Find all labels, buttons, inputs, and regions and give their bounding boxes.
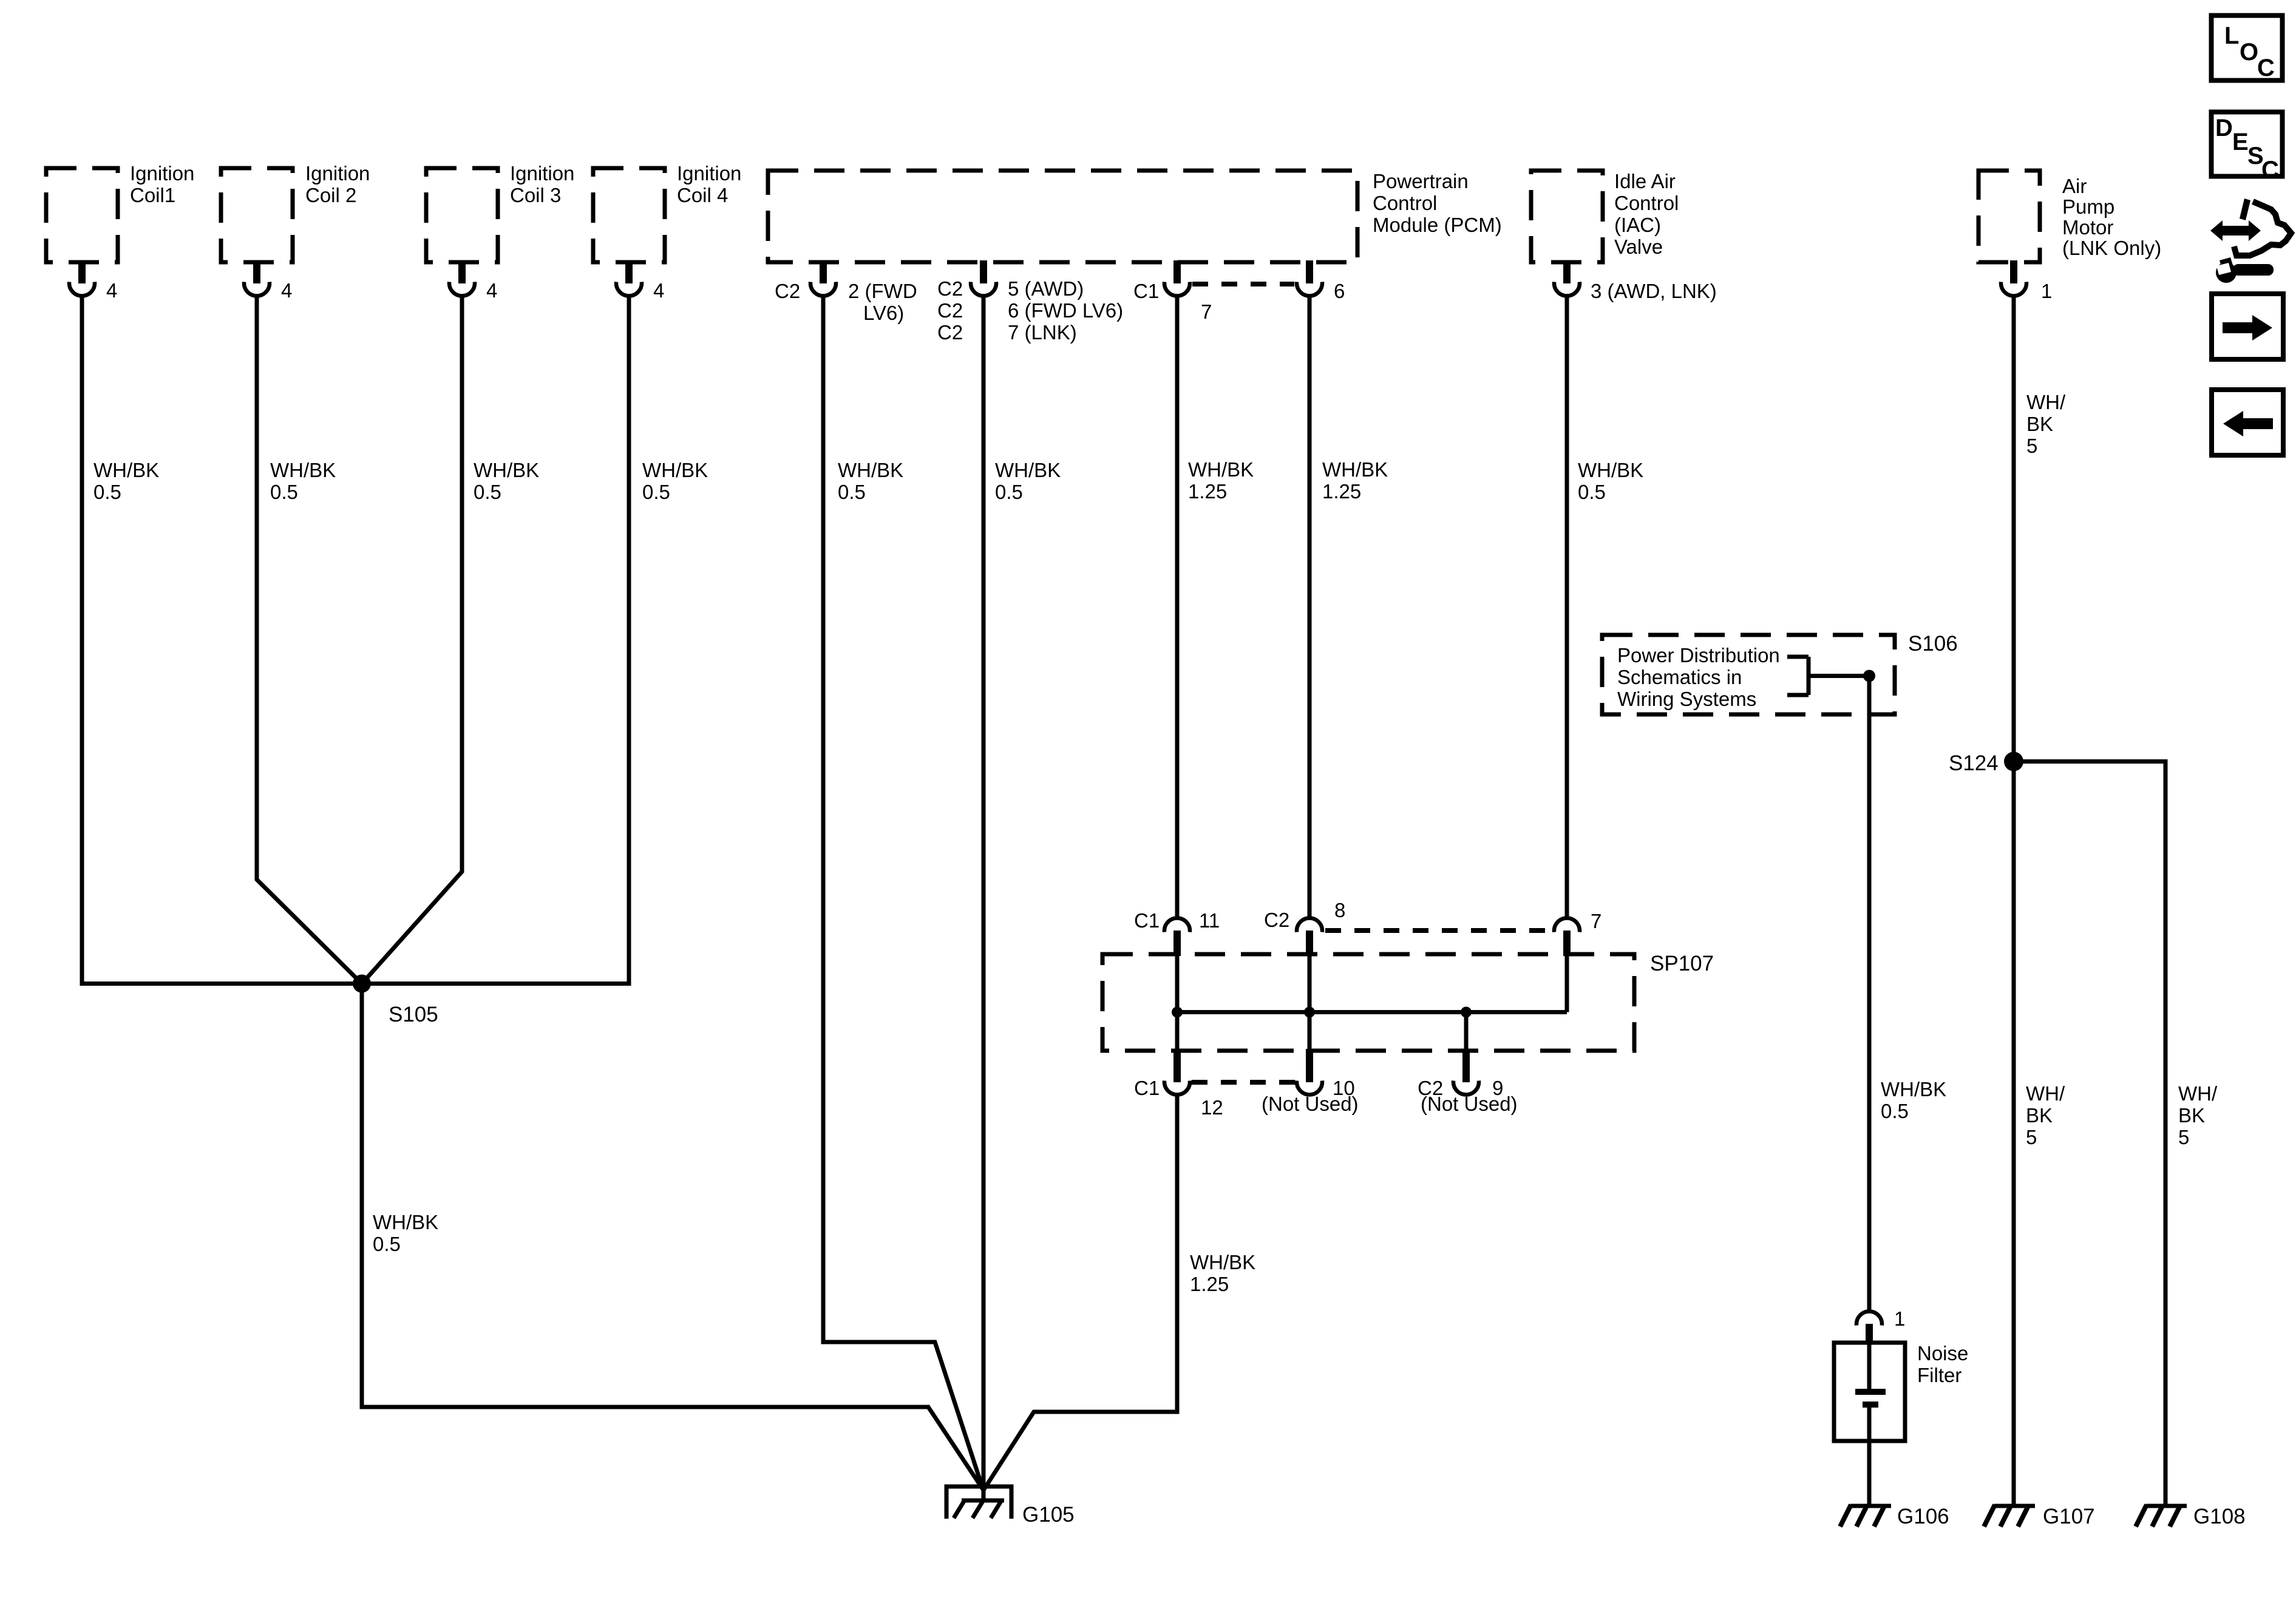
svg-text:Coil 2: Coil 2: [305, 184, 356, 206]
dashed tie line SP107 pin 12 to pin 10: [1192, 1080, 1296, 1085]
label S124: [1949, 751, 1999, 775]
svg-text:SP107: SP107: [1650, 952, 1714, 975]
wire label WH/BK 0.5 (noise filter wire): [1881, 1078, 1946, 1122]
svg-text:5: 5: [2178, 1126, 2189, 1148]
svg-text:C2: C2: [937, 321, 963, 344]
splice pack SP107 dashed box: [1102, 954, 1634, 1051]
label G107: [2043, 1505, 2095, 1528]
label (Not Used) pin 10: [1262, 1093, 1359, 1115]
connector label C2 (pin 8): [1264, 909, 1289, 931]
connector labels C2 C2 C2: [937, 277, 963, 344]
svg-text:BK: BK: [2178, 1104, 2205, 1127]
svg-text:Air: Air: [2062, 175, 2087, 197]
svg-text:WH/BK: WH/BK: [1881, 1078, 1946, 1100]
LOC icon box: [2212, 16, 2283, 82]
svg-text:1.25: 1.25: [1190, 1273, 1229, 1295]
svg-text:7: 7: [1201, 300, 1212, 323]
wire S106 to noise filter: [1867, 676, 1872, 1312]
ground G105 hatches: [954, 1501, 1001, 1518]
svg-text:Ignition: Ignition: [130, 162, 194, 185]
svg-text:Noise: Noise: [1917, 1342, 1968, 1364]
pin number 12: [1201, 1096, 1223, 1119]
svg-text:Ignition: Ignition: [305, 162, 370, 185]
svg-text:C2: C2: [937, 299, 963, 322]
svg-text:C2: C2: [1264, 909, 1289, 931]
svg-text:C: C: [2261, 157, 2279, 183]
svg-text:12: 12: [1201, 1096, 1223, 1119]
pin number 9: [1492, 1077, 1503, 1099]
label (Not Used) pin 9: [1421, 1093, 1518, 1115]
SP107 internal vertical pin 7: [1565, 954, 1569, 1012]
PCM pin C2-2 connector cup: [810, 282, 836, 296]
SP107 pin C1-11 stub: [1173, 931, 1181, 956]
svg-text:0.5: 0.5: [1881, 1100, 1909, 1122]
wire label WH/BK 0.5 (coil1): [93, 459, 159, 503]
svg-text:0.5: 0.5: [642, 481, 670, 503]
SP107 internal bus: [1177, 1010, 1567, 1014]
ground G106 symbol: [1840, 1505, 1891, 1527]
IAC valve dashed box: [1531, 171, 1603, 262]
svg-text:WH/: WH/: [2026, 391, 2066, 413]
svg-text:0.5: 0.5: [373, 1233, 401, 1255]
SP107 pin 10 stub: [1306, 1049, 1313, 1082]
view/tools icon outline shape: [2234, 198, 2291, 256]
wire S124 to G108: [2014, 762, 2165, 1507]
svg-text:C2: C2: [775, 280, 800, 302]
svg-text:Filter: Filter: [1917, 1364, 1961, 1386]
connector label C1: [1133, 280, 1159, 302]
svg-text:C1: C1: [1134, 1077, 1160, 1099]
wire label WH/BK 0.5 (coil4): [642, 459, 708, 503]
ignition coil 1 dashed box: [46, 168, 118, 262]
view/tools icon double arrow: [2210, 220, 2261, 241]
DESC icon box: [2212, 112, 2283, 184]
S106 bracket: [1787, 657, 1869, 695]
noise filter box: [1834, 1343, 1905, 1441]
svg-text:G107: G107: [2043, 1505, 2095, 1528]
wire S105 to G105: [362, 984, 983, 1491]
svg-text:Ignition: Ignition: [510, 162, 574, 185]
svg-text:3 (AWD, LNK): 3 (AWD, LNK): [1591, 280, 1717, 302]
pin number 1 (air pump): [2041, 280, 2052, 302]
svg-text:Pump: Pump: [2062, 195, 2114, 218]
ground G105 bracket: [946, 1486, 1011, 1519]
svg-text:5: 5: [2026, 1126, 2037, 1148]
pin label 3 (AWD, LNK): [1591, 280, 1717, 302]
wire label WH/BK 1.25 (C1-7 wire): [1188, 458, 1254, 503]
svg-text:11: 11: [1199, 909, 1220, 932]
svg-text:WH/BK: WH/BK: [1322, 458, 1388, 481]
svg-text:Coil 4: Coil 4: [677, 184, 728, 206]
svg-text:D: D: [2215, 115, 2233, 141]
PCM pin C2-2 stub: [820, 260, 827, 283]
ignition coil 4 pin 4 connector cup: [616, 282, 642, 296]
svg-text:WH/BK: WH/BK: [93, 459, 159, 481]
svg-text:2 (FWD: 2 (FWD: [848, 280, 917, 302]
SP107 pin 7 connector cup: [1554, 918, 1580, 932]
wire coil3 to S105: [362, 296, 462, 984]
noise filter pin stub: [1866, 1324, 1873, 1344]
dashed tie line SP107 pin 8 to pin 7: [1325, 928, 1552, 933]
svg-text:S105: S105: [389, 1003, 438, 1026]
air pump pin stub: [2010, 260, 2017, 283]
label SP107: [1650, 952, 1714, 975]
svg-text:Motor: Motor: [2062, 216, 2113, 239]
wire label WH/BK 0.5 (S105 wire): [373, 1211, 438, 1255]
PCM pin C2-5/6/7 connector cup: [971, 282, 996, 296]
svg-text:Powertrain: Powertrain: [1373, 170, 1469, 192]
air pump motor dashed box: [1978, 171, 2040, 262]
svg-text:Idle Air: Idle Air: [1614, 170, 1676, 192]
SP107 pin 7 stub: [1563, 931, 1571, 956]
wire label WH/BK 0.5 (coil2): [270, 459, 336, 503]
splice S106 dashed box: [1602, 635, 1895, 714]
ground G107 symbol: [1984, 1505, 2035, 1527]
SP107 pin C2-9 connector cup: [1453, 1080, 1479, 1094]
svg-text:WH/: WH/: [2026, 1082, 2065, 1105]
capacitor lower lead: [1867, 1408, 1872, 1443]
svg-text:7: 7: [1591, 910, 1601, 932]
svg-text:0.5: 0.5: [995, 481, 1023, 503]
pin number 8: [1334, 899, 1345, 921]
ignition coil 2 dashed box: [221, 168, 293, 262]
PCM pin C1-7 stub: [1173, 260, 1181, 283]
PCM pin C2-5/6/7 stub: [980, 260, 987, 283]
svg-text:WH/: WH/: [2178, 1082, 2218, 1105]
svg-text:Schematics in: Schematics in: [1617, 666, 1742, 688]
wire label WH/BK 0.5 (coil3): [474, 459, 539, 503]
pin number 4 (coil 4): [653, 279, 664, 302]
wire label WH/BK 0.5 (IAC wire): [1578, 459, 1643, 503]
svg-text:Wiring Systems: Wiring Systems: [1617, 688, 1756, 710]
IAC pin stub: [1563, 260, 1571, 283]
svg-text:BK: BK: [2026, 1104, 2053, 1127]
svg-text:Coil 3: Coil 3: [510, 184, 561, 206]
capacitor bottom plate: [1863, 1402, 1878, 1408]
pin number 7 (PCM C1): [1201, 300, 1212, 323]
pin labels 5 (AWD) 6 (FWD LV6) 7 (LNK): [1008, 277, 1123, 344]
wire SP107 pin 12 to G105: [983, 1093, 1177, 1490]
svg-text:C1: C1: [1133, 280, 1159, 302]
wire PCM C2-2 to G105: [823, 296, 983, 1491]
svg-text:4: 4: [653, 279, 664, 302]
SP107 pin C2-8 stub: [1306, 931, 1313, 956]
SP107 pin C2-9 stub: [1462, 1049, 1470, 1082]
svg-text:E: E: [2232, 129, 2249, 155]
pin number 6: [1334, 280, 1345, 302]
pin number 10: [1333, 1077, 1355, 1099]
ground G108 symbol: [2136, 1505, 2187, 1527]
ignition coil 3 dashed box: [426, 168, 498, 262]
SP107 pin 10 connector cup: [1297, 1080, 1322, 1094]
svg-text:5 (AWD): 5 (AWD): [1008, 277, 1084, 300]
air pump motor label: [2062, 175, 2161, 259]
ignition coil 4 label: [677, 162, 741, 206]
forward arrow icon box: [2212, 294, 2283, 359]
svg-text:7 (LNK): 7 (LNK): [1008, 321, 1077, 344]
wire PCM C2-5 to G105: [982, 296, 986, 1500]
wire label WH/BK 0.5 (C2-5 wire): [995, 459, 1061, 503]
ignition coil 2 label: [305, 162, 370, 206]
wire PCM pin 6 to SP107 pin 8: [1308, 296, 1312, 918]
SP107 internal vertical pin 11 to 12: [1175, 954, 1180, 1051]
svg-text:Control: Control: [1373, 192, 1437, 214]
svg-text:G105: G105: [1022, 1503, 1075, 1527]
connector label C1 (pin 12): [1134, 1077, 1160, 1099]
svg-text:LV6): LV6): [863, 302, 904, 324]
capacitor C (noise filter) lead: [1867, 1343, 1872, 1389]
svg-text:BK: BK: [2026, 413, 2053, 435]
pin number 11: [1199, 909, 1220, 932]
PCM U1 dashed box: [768, 171, 1357, 262]
svg-text:C1: C1: [1134, 909, 1160, 932]
svg-text:5: 5: [2026, 435, 2037, 457]
ignition coil 3 pin stub: [458, 260, 466, 283]
SP107 internal vertical to pin 9: [1464, 1012, 1469, 1051]
svg-text:4: 4: [106, 279, 117, 302]
ignition coil 3 label: [510, 162, 574, 206]
SP107 pin C1-12 stub: [1173, 1049, 1181, 1082]
wire coil2 to S105: [257, 296, 362, 984]
svg-text:(Not Used): (Not Used): [1421, 1093, 1518, 1115]
air pump pin 1 connector cup: [2001, 282, 2026, 296]
pin number 4 (coil 3): [486, 279, 497, 302]
noise filter label: [1917, 1342, 1968, 1386]
SP107 pin C1-11 connector cup: [1164, 918, 1190, 932]
label G106: [1897, 1505, 1949, 1528]
svg-text:C2: C2: [937, 277, 963, 300]
back arrow icon box: [2212, 390, 2283, 455]
PCM label: [1373, 170, 1502, 236]
ignition coil 1 label: [130, 162, 194, 206]
label S105: [389, 1003, 438, 1026]
svg-text:4: 4: [486, 279, 497, 302]
ignition coil 4 dashed box: [593, 168, 665, 262]
svg-text:C: C: [2257, 55, 2275, 81]
svg-text:0.5: 0.5: [270, 481, 298, 503]
SP107 bus junction dot (pin 8): [1304, 1007, 1315, 1018]
svg-text:S124: S124: [1949, 751, 1999, 775]
svg-text:G108: G108: [2193, 1505, 2246, 1528]
noise filter connector cup (pin 1): [1856, 1312, 1882, 1326]
svg-text:1: 1: [2041, 280, 2052, 302]
svg-text:WH/BK: WH/BK: [1188, 458, 1254, 481]
IAC pin 3 connector cup: [1554, 282, 1580, 296]
svg-text:6 (FWD LV6): 6 (FWD LV6): [1008, 299, 1123, 322]
wire label WH/BK 5 (G108 wire): [2178, 1082, 2218, 1148]
S106 note text: [1617, 644, 1780, 710]
PCM pin C1-7 connector cup: [1164, 282, 1190, 296]
SP107 bus junction dot (pin 11): [1172, 1007, 1183, 1018]
svg-text:O: O: [2240, 39, 2258, 66]
svg-text:WH/BK: WH/BK: [838, 459, 903, 481]
pin number 7 (SP107): [1591, 910, 1601, 932]
svg-text:0.5: 0.5: [474, 481, 501, 503]
svg-text:Valve: Valve: [1614, 236, 1663, 258]
view/tools icon wrench: [2216, 257, 2274, 283]
ignition coil 3 pin 4 connector cup: [449, 282, 475, 296]
wire label WH/BK 1.25 (pin 12 wire): [1190, 1251, 1255, 1295]
svg-text:1.25: 1.25: [1322, 480, 1361, 503]
svg-text:G106: G106: [1897, 1505, 1949, 1528]
svg-text:6: 6: [1334, 280, 1345, 302]
wire coil1 to S105: [82, 296, 362, 984]
svg-text:0.5: 0.5: [838, 481, 866, 503]
wire label WH/BK 1.25 (pin 6 wire): [1322, 458, 1388, 503]
connector label C1 (pin 11): [1134, 909, 1160, 932]
ignition coil 1 pin stub: [78, 260, 86, 283]
svg-text:Coil1: Coil1: [130, 184, 175, 206]
ignition coil 2 pin 4 connector cup: [244, 282, 270, 296]
ground G105 bar: [962, 1499, 1004, 1503]
dashed tie line PCM C1-7 to pin 6: [1192, 282, 1294, 286]
svg-text:L: L: [2224, 22, 2239, 49]
svg-text:1.25: 1.25: [1188, 480, 1227, 503]
label G105: [1022, 1503, 1075, 1527]
SP107 pin C1-12 connector cup: [1164, 1080, 1190, 1094]
wire coil4 to S105: [362, 296, 629, 984]
connector label C2 (pin 9): [1418, 1077, 1443, 1099]
wire label WH/BK 5 (G107 wire): [2026, 1082, 2065, 1148]
SP107 pin C2-8 connector cup: [1297, 918, 1322, 932]
svg-text:WH/BK: WH/BK: [373, 1211, 438, 1233]
pin number 4 (coil 2): [281, 279, 292, 302]
pin label 2 (FWD LV6): [848, 280, 917, 324]
svg-text:WH/BK: WH/BK: [995, 459, 1061, 481]
svg-text:Power Distribution: Power Distribution: [1617, 644, 1780, 666]
ignition coil 4 pin stub: [625, 260, 633, 283]
PCM pin 6 connector cup: [1297, 282, 1322, 296]
wire label WH/BK 0.5 (C2-2 wire): [838, 459, 903, 503]
svg-text:Ignition: Ignition: [677, 162, 741, 185]
capacitor top plate: [1855, 1389, 1886, 1395]
svg-text:(LNK Only): (LNK Only): [2062, 237, 2161, 259]
wire noise filter to G106: [1867, 1441, 1872, 1506]
svg-text:Control: Control: [1614, 192, 1679, 214]
connector label C2 (pin 2): [775, 280, 800, 302]
S106 junction dot: [1863, 670, 1875, 682]
label S106: [1908, 632, 1958, 656]
svg-text:(IAC): (IAC): [1614, 214, 1661, 236]
splice S124 junction dot: [2004, 752, 2023, 771]
wire air pump to S124 to G107: [2012, 296, 2016, 1506]
svg-text:S106: S106: [1908, 632, 1958, 656]
IAC valve label: [1614, 170, 1679, 258]
svg-text:WH/BK: WH/BK: [642, 459, 708, 481]
svg-text:WH/BK: WH/BK: [1190, 1251, 1255, 1273]
splice S105 junction dot: [353, 975, 371, 993]
ignition coil 2 pin stub: [253, 260, 260, 283]
svg-text:WH/BK: WH/BK: [270, 459, 336, 481]
wire PCM C1-7 to SP107 pin 11: [1175, 296, 1180, 918]
wire label WH/BK 5 (air pump wire): [2026, 391, 2066, 457]
svg-text:0.5: 0.5: [93, 481, 121, 503]
ignition coil 1 pin 4 connector cup: [69, 282, 95, 296]
svg-text:(Not Used): (Not Used): [1262, 1093, 1359, 1115]
svg-text:WH/BK: WH/BK: [1578, 459, 1643, 481]
SP107 internal vertical pin 8 to 10: [1308, 954, 1312, 1051]
svg-text:WH/BK: WH/BK: [474, 459, 539, 481]
pin number 4 (coil 1): [106, 279, 117, 302]
svg-text:4: 4: [281, 279, 292, 302]
svg-text:8: 8: [1334, 899, 1345, 921]
SP107 bus junction dot (pin 9): [1461, 1007, 1472, 1018]
svg-text:0.5: 0.5: [1578, 481, 1606, 503]
svg-text:Module (PCM): Module (PCM): [1373, 214, 1502, 236]
wire IAC pin 3 to SP107 pin 7: [1565, 296, 1569, 918]
PCM pin 6 stub: [1306, 260, 1313, 283]
pin number 1 (noise filter): [1894, 1307, 1905, 1330]
svg-text:1: 1: [1894, 1307, 1905, 1330]
label G108: [2193, 1505, 2246, 1528]
